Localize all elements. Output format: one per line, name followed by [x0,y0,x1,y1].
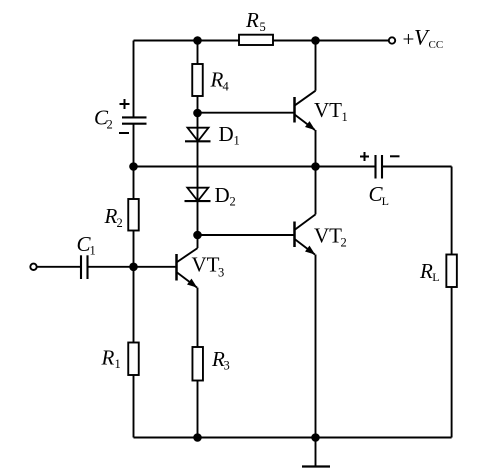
svg-text:R: R [419,259,433,283]
svg-text:2: 2 [117,216,123,230]
resistor R1 [128,343,139,376]
svg-text:R: R [210,68,224,92]
capacitor CL [376,155,383,179]
wire left rail (R1 to bottom rail) [133,375,135,438]
wire CL to right rail [382,166,452,168]
svg-text:CC: CC [429,39,444,51]
svg-text:L: L [382,194,389,208]
wire R4 to diode chain (through D1, mid rail crossing, D2) [197,96,199,235]
node R3 / bottom rail [193,433,202,442]
svg-text:R: R [101,346,115,370]
C2 polarity + [120,99,130,109]
wire left rail (C2 to R2) [133,124,135,199]
CL polarity - [390,155,400,157]
capacitor C2 [122,117,147,123]
node VT1 emitter / mid rail [311,162,320,171]
node top rail / VT1 collector [311,36,320,45]
svg-text:5: 5 [260,20,266,34]
wire input to C1 [37,266,81,268]
svg-text:VT: VT [192,252,220,276]
wire mid rail (C2 node to VT1 emitter node) [134,166,316,168]
input terminal [30,264,36,270]
svg-text:2: 2 [107,117,113,131]
wire bottom rail [134,437,452,439]
diode D2 [185,188,211,201]
wire left rail upper (top rail to C2) [133,41,135,118]
resistor R3 [192,347,203,381]
wire top rail [134,40,389,42]
svg-text:1: 1 [90,243,96,257]
transistor VT2 base wire [198,234,295,236]
svg-text:R: R [104,204,118,228]
svg-text:L: L [432,270,439,284]
svg-text:VT: VT [314,224,342,248]
capacitor C1 [81,255,88,279]
svg-text:VT: VT [314,98,342,122]
svg-text:R: R [245,8,259,32]
node D2 / VT3 collector / VT2 base [193,231,202,240]
resistor RL [446,255,457,288]
svg-text:4: 4 [223,80,230,94]
wire right rail upper [451,167,453,255]
wire R3 to bottom rail [197,381,199,438]
svg-text:D: D [215,183,230,207]
wire left rail (R2 to input node) [133,231,135,267]
C2 polarity - [119,132,129,134]
svg-text:2: 2 [230,195,236,209]
svg-text:2: 2 [341,236,347,250]
wire C1 to input node [88,266,134,268]
svg-text:1: 1 [115,357,121,371]
wire mid rail (VT1 emitter node to CL) [316,166,376,168]
svg-text:D: D [219,122,234,146]
transistor VT1 base wire [198,112,295,114]
diode D1 [185,128,211,142]
terminal +Vcc [389,37,395,43]
transistor VT3 base wire [134,266,177,268]
resistor R4 [192,64,203,96]
svg-text:1: 1 [342,110,348,124]
transistor VT2 [295,167,316,438]
ground [302,438,330,467]
svg-text:3: 3 [224,359,230,373]
svg-text:1: 1 [234,133,240,147]
transistor VT3 [177,235,198,347]
node VT2 emitter / ground [311,433,320,442]
wire R4 top [197,41,199,65]
resistor R2 [128,199,139,231]
node C2 / mid rail [129,162,138,171]
svg-text:+: + [403,27,415,51]
CL polarity + [360,152,369,161]
wire right rail lower [451,287,453,438]
node top rail / R4 [193,36,202,45]
svg-text:3: 3 [218,265,224,279]
transistor VT1 [295,41,316,167]
node R4 / D1 / VT1 base [193,109,202,118]
node input / R2 / R1 / VT3 base [129,263,138,272]
resistor R5 [239,35,273,45]
wire left rail (input node to R1) [133,267,135,343]
